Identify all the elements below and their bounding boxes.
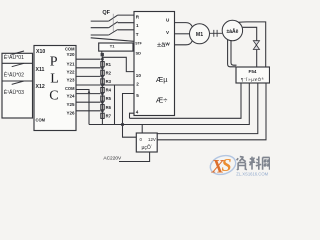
svg-text:P: P xyxy=(50,55,58,70)
wire STF from T1 xyxy=(91,38,134,42)
svg-text:Ê¹ÄÜ*03: Ê¹ÄÜ*03 xyxy=(4,88,24,96)
svg-text:Ê¹ÄÜ*01: Ê¹ÄÜ*01 xyxy=(4,53,24,61)
wire T to inverter xyxy=(118,29,134,31)
wire encoder right to valve xyxy=(243,27,257,40)
wire AC220V xyxy=(119,152,150,162)
resistor R3 xyxy=(101,79,104,84)
wire Y output row 1 xyxy=(76,58,101,60)
svg-text:1: 1 xyxy=(136,23,139,28)
svg-text:T: T xyxy=(136,32,139,37)
power supply G1 box xyxy=(136,133,157,152)
encoder B1 xyxy=(222,20,242,40)
wire SD from T1 xyxy=(133,49,134,51)
node 6 junction dot xyxy=(101,101,104,104)
svg-text:5: 5 xyxy=(136,93,139,98)
svg-text:Ê¹ÄÜ*02: Ê¹ÄÜ*02 xyxy=(4,71,24,79)
bus loop B xyxy=(89,83,249,125)
phase wire L3 left xyxy=(91,34,109,36)
wire Y output row 7 xyxy=(76,110,101,112)
wire V to motor xyxy=(175,33,190,35)
svg-text:R4: R4 xyxy=(106,88,112,93)
breaker QF pole2 blade xyxy=(109,22,118,28)
resistor R1 xyxy=(101,62,104,67)
switch SB2 blade xyxy=(12,63,24,66)
wire pin5 to supply xyxy=(123,94,137,138)
switch SB3 blade xyxy=(12,81,24,84)
resistor R5 xyxy=(101,96,104,101)
resistor R7 xyxy=(101,113,104,118)
bus2 vertical to loop B xyxy=(114,85,116,125)
wire T1 bottom stub xyxy=(101,51,103,53)
wire pin4 jog xyxy=(130,113,135,118)
svg-text:X12: X12 xyxy=(36,84,45,90)
wire Y output row 5 xyxy=(76,93,101,95)
svg-text:T1: T1 xyxy=(110,43,115,48)
svg-text:W: W xyxy=(165,42,170,47)
junction square T1/ladder top xyxy=(101,53,104,56)
wire square to node1 xyxy=(101,56,103,59)
svg-text:QF: QF xyxy=(102,10,110,16)
svg-text:Æµ: Æµ xyxy=(156,75,169,84)
wire Y output row 6 xyxy=(76,101,101,103)
watermark text 资料网 (drawn strokes) xyxy=(237,156,270,169)
svg-text:STF: STF xyxy=(135,41,141,45)
wire ladder segment xyxy=(101,85,103,94)
svg-text:2: 2 xyxy=(136,81,139,86)
wire row2 xyxy=(2,62,33,64)
switch box (input buttons enclosure) xyxy=(2,53,33,118)
wire R to inverter xyxy=(118,14,134,16)
wire COM2 down to loop B xyxy=(76,90,89,125)
svg-text:Y24: Y24 xyxy=(66,94,75,99)
phase wire L2 left xyxy=(91,27,109,29)
breaker QF pole1 blade xyxy=(109,15,118,21)
svg-text:AC220V: AC220V xyxy=(103,156,122,162)
svg-text:R6: R6 xyxy=(106,105,112,110)
wire ladder segment xyxy=(101,59,103,68)
breaker QF linkage xyxy=(112,14,114,32)
node 4 junction dot xyxy=(101,84,104,87)
wire encoder bottom A xyxy=(228,40,236,67)
junction dot COM2 xyxy=(88,91,90,93)
wire encoder bottom B xyxy=(231,40,237,65)
resistor R2 xyxy=(101,70,104,75)
svg-text:Y26: Y26 xyxy=(66,111,75,116)
wire ladder segment xyxy=(101,102,103,111)
shaft coupling xyxy=(210,30,223,37)
svg-text:Æ÷: Æ÷ xyxy=(156,96,168,105)
svg-text:10: 10 xyxy=(136,73,142,78)
svg-text:R7: R7 xyxy=(106,113,112,118)
wire W to motor xyxy=(175,41,193,45)
svg-text:Y21: Y21 xyxy=(66,62,75,67)
breaker QF pole3 blade xyxy=(109,30,118,36)
wire Y output row 2 xyxy=(76,67,101,69)
svg-text:12V: 12V xyxy=(148,137,156,142)
svg-text:L: L xyxy=(50,72,59,87)
svg-text:Y20: Y20 xyxy=(66,52,75,57)
wire supply top riser xyxy=(141,125,143,134)
svg-text:ZL.XS1616.COM: ZL.XS1616.COM xyxy=(236,171,268,176)
inverter U2 box xyxy=(134,12,175,116)
svg-text:R2: R2 xyxy=(106,70,112,75)
node 3 junction dot xyxy=(101,75,104,78)
wire U to motor xyxy=(175,23,193,27)
node 1 junction dot xyxy=(101,58,104,61)
svg-text:COM: COM xyxy=(65,46,75,51)
watermark logo swoosh xyxy=(208,152,238,177)
wire valve to F54 box xyxy=(256,50,258,68)
wire ladder segment xyxy=(101,76,103,85)
wire ladder segment xyxy=(101,68,103,77)
wire S to inverter xyxy=(118,22,134,24)
wire encoder top to right bus xyxy=(238,22,265,67)
wire ladder segment xyxy=(101,94,103,103)
svg-text:SD: SD xyxy=(136,51,142,56)
svg-text:±àÂë: ±àÂë xyxy=(227,28,239,35)
F54 unit box xyxy=(236,67,270,83)
node 2 junction dot xyxy=(101,66,104,69)
wire row3 xyxy=(2,80,33,82)
valve V1 bowtie xyxy=(253,41,259,50)
svg-text:S: S xyxy=(222,155,232,175)
wire row4 to pin 2 xyxy=(102,84,134,86)
junction dot pin5/loopB xyxy=(121,123,124,126)
svg-text:X10: X10 xyxy=(36,49,45,55)
node 7 junction dot xyxy=(101,109,104,112)
svg-text:Y22: Y22 xyxy=(66,70,75,75)
svg-text:M1: M1 xyxy=(196,32,203,38)
svg-text:¶¨Î»µ¥Ôª: ¶¨Î»µ¥Ôª xyxy=(241,77,264,82)
svg-text:R5: R5 xyxy=(106,96,112,101)
svg-text:COM: COM xyxy=(36,118,46,123)
resistor R4 xyxy=(101,87,104,92)
transformer T1 box xyxy=(99,43,133,51)
svg-text:4: 4 xyxy=(136,110,139,115)
phase wire L1 left xyxy=(91,20,109,22)
svg-text:Y25: Y25 xyxy=(66,102,75,107)
wire Y output row 3 xyxy=(76,75,101,77)
wire Y output row 4 xyxy=(76,84,101,86)
switch SB1 blade xyxy=(12,51,24,54)
bus loop A xyxy=(130,83,242,118)
svg-text:F54: F54 xyxy=(249,69,257,74)
svg-text:COM: COM xyxy=(65,86,75,91)
wire ladder bottom to loop B xyxy=(101,111,103,125)
svg-text:X11: X11 xyxy=(36,67,45,73)
node 5 junction dot xyxy=(101,92,104,95)
svg-text:Y23: Y23 xyxy=(66,78,75,83)
PLC U1 box xyxy=(34,46,76,131)
motor M1 xyxy=(190,24,210,44)
svg-text:R3: R3 xyxy=(106,79,112,84)
bus loop D xyxy=(157,83,266,140)
bus loop C xyxy=(157,83,258,134)
resistor R6 xyxy=(101,105,104,110)
svg-text:C: C xyxy=(49,89,58,104)
wire node1 to pin 10 xyxy=(102,57,134,71)
svg-text:µçÔ´: µçÔ´ xyxy=(142,144,153,151)
svg-text:R1: R1 xyxy=(106,62,112,67)
